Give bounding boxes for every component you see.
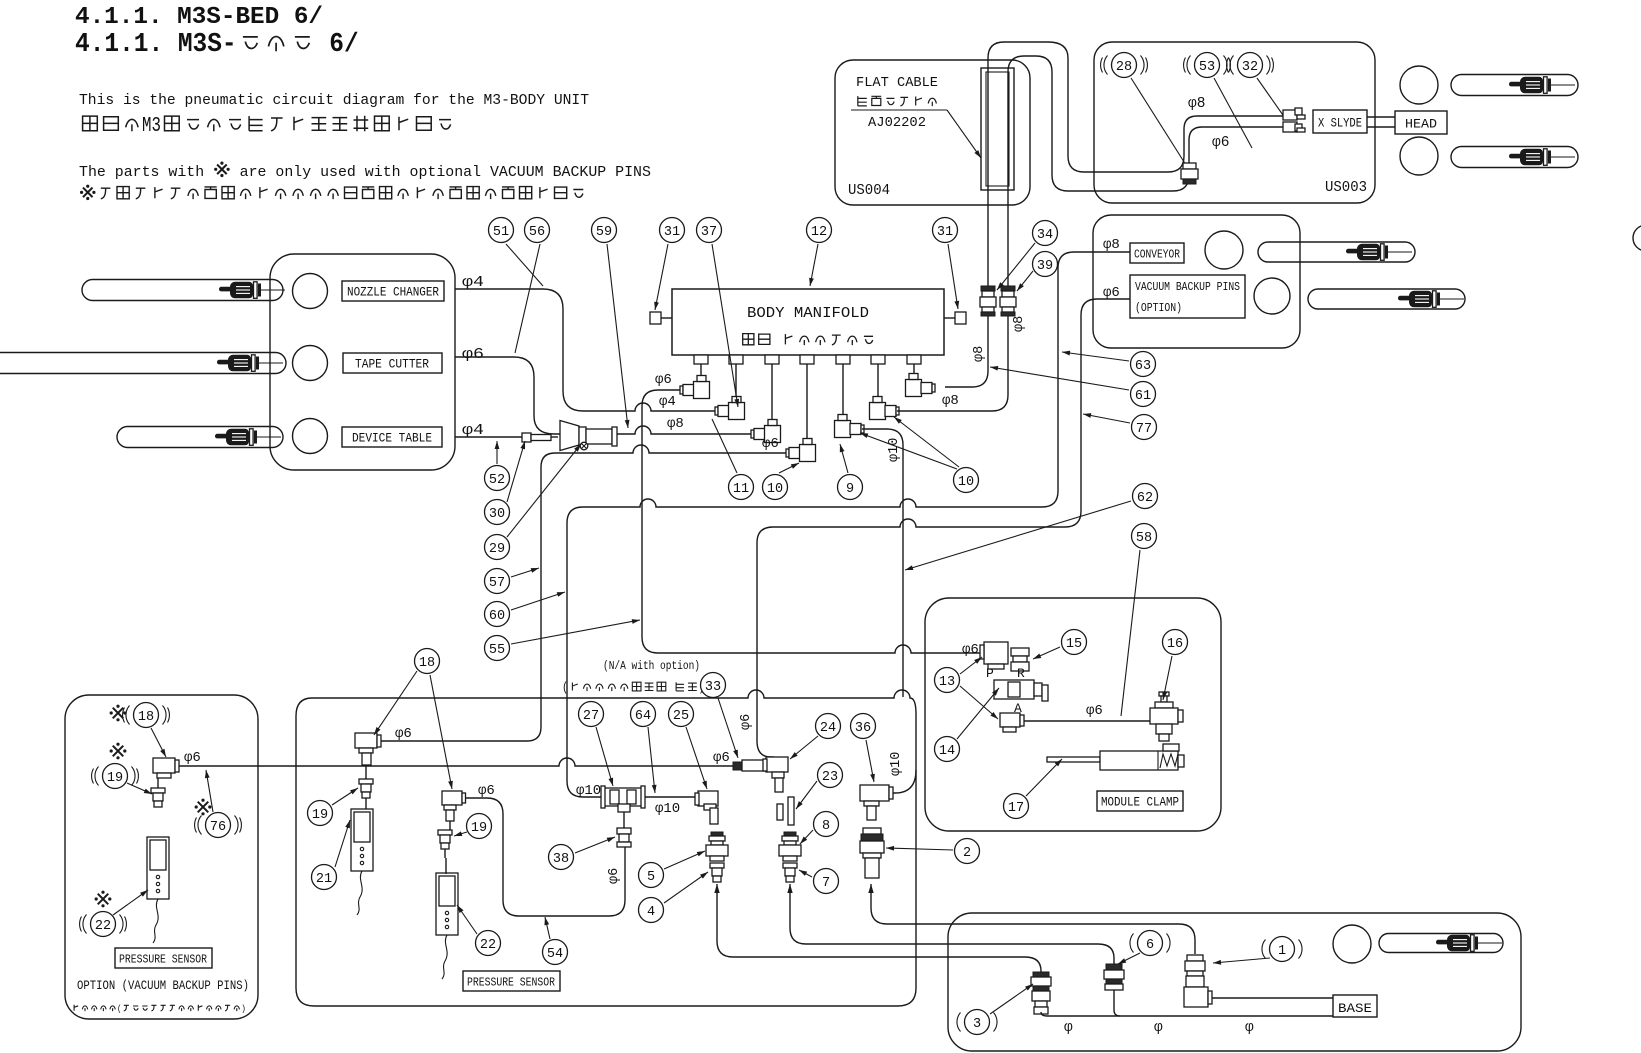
manifold port 4 stub	[800, 355, 814, 364]
circle right edge partial	[1633, 225, 1641, 251]
svg-text:φ6: φ6	[655, 372, 672, 388]
svg-text:57: 57	[489, 576, 505, 591]
manifold port 2 stub	[729, 355, 743, 364]
svg-text:φ4: φ4	[659, 394, 676, 410]
svg-text:4.1.1. M3S-BED 6/: 4.1.1. M3S-BED 6/	[75, 4, 323, 31]
svg-text:NOZZLE CHANGER: NOZZLE CHANGER	[347, 286, 439, 300]
svg-text:(: (	[562, 680, 568, 695]
callout 18 option	[134, 703, 159, 728]
svg-text:61: 61	[1135, 389, 1151, 404]
component clamp cylinder 17	[1047, 757, 1100, 762]
wire elbow18right down	[449, 821, 451, 830]
component pin 23	[788, 797, 794, 825]
callout 17	[1004, 794, 1029, 819]
svg-text:X SLYDE: X SLYDE	[1318, 117, 1362, 131]
valve hand-valve 29	[560, 421, 579, 451]
leader callout 28 to union	[1131, 78, 1186, 165]
fitting elbow 1	[1187, 955, 1203, 961]
svg-text:10: 10	[958, 475, 974, 490]
label option japanese	[74, 1005, 78, 1011]
svg-text:22: 22	[480, 938, 496, 953]
callout 10 a	[763, 475, 788, 500]
callout 60	[485, 602, 510, 627]
svg-text:18: 18	[138, 710, 154, 725]
wire option elbow down	[157, 778, 159, 788]
svg-text:59: 59	[596, 225, 612, 240]
enclosure BASE	[948, 913, 1521, 1051]
callout 51	[489, 218, 514, 243]
fitting inline union 28 on riser	[1183, 163, 1196, 169]
callout 18 shared	[415, 649, 440, 674]
wire flat cable outer run to US003 phi8	[988, 42, 1283, 288]
callout 1 base	[1270, 937, 1295, 962]
enclosure US004	[835, 60, 1030, 205]
fitting tee 27 (phi10)	[604, 788, 642, 806]
pointer pill nozzle-changer	[82, 280, 283, 301]
svg-text:53: 53	[1199, 60, 1215, 75]
callout 11	[729, 475, 754, 500]
svg-text:BODY MANIFOLD: BODY MANIFOLD	[747, 305, 869, 322]
svg-text:6/: 6/	[315, 29, 359, 59]
svg-text:13: 13	[939, 675, 955, 690]
pointer pill vacuum	[1308, 289, 1465, 309]
callout 59	[592, 218, 617, 243]
svg-text:77: 77	[1136, 422, 1152, 437]
svg-text:φ6: φ6	[184, 750, 201, 766]
wire elbow18b down and U-loop to fitting38 drop	[464, 798, 625, 916]
svg-text:14: 14	[939, 744, 955, 759]
callout 14	[935, 737, 960, 762]
svg-text:22: 22	[95, 919, 111, 934]
svg-text:US004: US004	[848, 182, 890, 199]
pointer pill head lower	[1451, 147, 1578, 168]
callout 28	[1112, 53, 1137, 78]
svg-text:21: 21	[316, 872, 332, 887]
callout 38	[549, 845, 574, 870]
svg-text:HEAD: HEAD	[1405, 117, 1437, 132]
fitting coupler 6	[1106, 964, 1122, 970]
svg-text:15: 15	[1066, 637, 1082, 652]
wire fitting19 to sensor21	[365, 798, 367, 809]
svg-text:7: 7	[822, 876, 830, 891]
fitting elbow 18 mid	[355, 733, 377, 748]
svg-text:R: R	[1017, 666, 1025, 681]
manifold port 1 stub	[694, 355, 708, 364]
label box CONVEYOR	[1130, 243, 1184, 263]
svg-text:34: 34	[1037, 228, 1053, 243]
pointer pill device-table	[117, 427, 283, 448]
wire conveyor to tee27 long run	[567, 252, 1130, 797]
svg-text:37: 37	[701, 225, 717, 240]
fitting elbow P port	[984, 642, 1008, 664]
callout 19 right	[467, 814, 492, 839]
svg-text:31: 31	[937, 225, 953, 240]
underline flat cable label	[851, 109, 947, 111]
callout 10 b	[954, 468, 979, 493]
label body manifold japanese	[743, 334, 754, 345]
callout 7	[814, 869, 839, 894]
manifold port 7 stub	[907, 355, 921, 364]
arrow up at fitting2	[868, 884, 873, 893]
fitting elbow port4 (phi6)	[786, 449, 789, 457]
reference mark near 76	[198, 802, 209, 813]
svg-text:4.1.1. M3S-: 4.1.1. M3S-	[75, 29, 237, 59]
svg-text:55: 55	[489, 643, 505, 658]
description line japanese	[83, 116, 98, 131]
callout 5	[639, 863, 664, 888]
callout 76	[206, 813, 231, 838]
label box VACUUM BACKUP PINS	[1130, 275, 1245, 318]
svg-text:BASE: BASE	[1338, 1001, 1372, 1016]
enclosure MODULE CLAMP	[925, 598, 1221, 831]
svg-text:38: 38	[553, 852, 569, 867]
svg-text:TAPE CUTTER: TAPE CUTTER	[355, 358, 429, 372]
svg-text:19: 19	[471, 821, 487, 836]
svg-text:φ6: φ6	[607, 868, 622, 884]
svg-text:28: 28	[1116, 60, 1132, 75]
wire port4 to pressure-sensor-21 elbow	[377, 445, 786, 741]
fitting silencer 15	[1011, 648, 1029, 656]
fitting elbow port5 (phi10)	[835, 421, 851, 438]
svg-text:): )	[241, 1003, 246, 1014]
label box NOZZLE CHANGER	[342, 281, 444, 301]
svg-text:9: 9	[846, 482, 854, 497]
svg-text:54: 54	[547, 947, 563, 962]
svg-text:φ8: φ8	[1188, 96, 1205, 112]
svg-text:φ: φ	[1245, 1020, 1254, 1036]
callout 24	[816, 714, 841, 739]
svg-text:US003: US003	[1325, 179, 1367, 196]
reference mark near 22	[98, 894, 109, 905]
fitting bulkhead 8	[784, 832, 796, 836]
svg-text:φ6: φ6	[462, 347, 484, 363]
svg-text:φ10: φ10	[889, 752, 904, 776]
svg-text:φ8: φ8	[942, 393, 959, 409]
wire option elbow to joint33	[179, 758, 733, 766]
callout 15	[1062, 630, 1087, 655]
callout 27	[579, 702, 604, 727]
fitting coupler 2	[863, 828, 881, 834]
svg-text:4: 4	[647, 905, 655, 920]
svg-text:58: 58	[1136, 531, 1152, 546]
svg-text:φ10: φ10	[655, 801, 680, 817]
svg-text:are only used with optional VA: are only used with optional VACUUM BACKU…	[231, 164, 651, 181]
svg-text:63: 63	[1135, 359, 1151, 374]
callout 52	[485, 466, 510, 491]
callout 33	[701, 673, 726, 698]
svg-text:17: 17	[1008, 801, 1024, 816]
callout 3 base	[965, 1010, 990, 1035]
fitting union 38	[617, 828, 631, 834]
svg-text:(N/A with option): (N/A with option)	[603, 659, 700, 673]
fitting coupler 39	[1001, 286, 1015, 291]
callout 58	[1132, 524, 1157, 549]
fitting elbow port2 (phi4)	[715, 407, 718, 415]
svg-text:3: 3	[973, 1017, 981, 1032]
svg-text:φ: φ	[1064, 1020, 1073, 1036]
component speed controller 16	[1159, 692, 1169, 696]
label box X SLYDE	[1313, 110, 1367, 133]
svg-text:18: 18	[419, 656, 435, 671]
port circle nozzle-changer	[293, 274, 328, 309]
enclosure conveyor-vacuum	[1093, 215, 1300, 348]
svg-text:φ8: φ8	[667, 416, 684, 432]
leader callout 32 to fitting	[1257, 78, 1285, 118]
svg-text:1: 1	[1278, 944, 1286, 959]
svg-text:φ6: φ6	[1212, 135, 1229, 151]
component pressure sensor option	[147, 837, 169, 899]
svg-text:29: 29	[489, 542, 505, 557]
label box HEAD	[1395, 111, 1447, 134]
label box PRESSURE SENSOR option	[115, 948, 212, 968]
svg-text:2: 2	[963, 846, 971, 861]
svg-text:62: 62	[1137, 491, 1153, 506]
manifold port 6 stub	[871, 355, 885, 364]
pointer pill conveyor	[1258, 242, 1415, 262]
svg-text:24: 24	[820, 721, 836, 736]
svg-text:φ6: φ6	[962, 642, 979, 658]
arrow up at fitting7	[787, 884, 792, 893]
svg-text:P: P	[986, 666, 994, 681]
callout 19 option	[103, 764, 128, 789]
callout 31 left	[660, 218, 685, 243]
svg-text:φ10: φ10	[887, 438, 902, 462]
circle head upper	[1400, 66, 1438, 104]
svg-text:8: 8	[822, 819, 830, 834]
callout 39	[1033, 252, 1058, 277]
svg-text:OPTION (VACUUM BACKUP PINS): OPTION (VACUUM BACKUP PINS)	[77, 978, 249, 993]
svg-text:φ8: φ8	[1103, 237, 1120, 253]
wire elbow18mid to fitting19	[365, 765, 367, 779]
svg-text:52: 52	[489, 473, 505, 488]
circle head lower	[1400, 137, 1438, 175]
leader callout 53 to wire	[1214, 78, 1252, 148]
svg-text:76: 76	[210, 820, 226, 835]
svg-text:M3: M3	[142, 114, 161, 138]
reference mark near 18	[113, 708, 124, 719]
wire flat cable upper run to US003 phi6	[1008, 56, 1283, 288]
fitting elbow port6 (phi8)	[870, 403, 886, 420]
fitting plug device line	[522, 433, 531, 442]
wire manifold port5 phi10 down to enclosure	[862, 429, 903, 697]
svg-text:φ8: φ8	[1012, 316, 1027, 332]
note line japanese	[83, 188, 93, 198]
svg-text:27: 27	[583, 709, 599, 724]
wire elbow1 to base label	[1212, 997, 1333, 999]
svg-text:60: 60	[489, 609, 505, 624]
enclosure OPTION vacuum backup pins	[65, 695, 258, 1019]
callout 29	[485, 535, 510, 560]
callout 36	[851, 714, 876, 739]
fitting nipple 19 option	[151, 788, 165, 793]
component BODY MANIFOLD	[672, 289, 944, 355]
flat cable component	[981, 68, 1014, 190]
wire fitting7 down to base fitting6	[790, 884, 1114, 964]
svg-text:φ10: φ10	[576, 783, 601, 799]
callout 53	[1195, 53, 1220, 78]
wire valve to port3	[617, 426, 751, 434]
enclosure bed internal components	[296, 690, 916, 1006]
svg-text:11: 11	[733, 482, 749, 497]
callout 8	[814, 812, 839, 837]
svg-text:64: 64	[635, 709, 651, 724]
port circle device-table	[293, 419, 328, 454]
fitting x-slyde upper	[1283, 110, 1297, 120]
svg-text:MODULE CLAMP: MODULE CLAMP	[1101, 795, 1179, 810]
arrow up at fitting4	[714, 884, 719, 893]
callout 37	[697, 218, 722, 243]
fitting nipple 7	[783, 863, 797, 868]
callout 22 option	[91, 912, 116, 937]
fitting elbow port1 (phi6)	[680, 386, 683, 394]
wire tee27 down to fitting38	[623, 812, 625, 828]
svg-text:36: 36	[855, 721, 871, 736]
svg-text:51: 51	[493, 225, 509, 240]
manifold right side port	[944, 317, 955, 319]
port circle tape-cutter	[293, 346, 328, 381]
svg-text:φ6: φ6	[1086, 703, 1103, 719]
fitting elbow 25	[698, 791, 718, 806]
label box DEVICE TABLE	[342, 427, 442, 447]
svg-text:φ: φ	[1154, 1020, 1163, 1036]
callout 30	[485, 500, 510, 525]
callout 61	[1131, 382, 1156, 407]
callout 12	[807, 218, 832, 243]
wire 19right to sensor	[444, 849, 446, 858]
svg-text:(OPTION): (OPTION)	[1135, 301, 1182, 315]
enclosure US003	[1094, 42, 1375, 203]
pointer pill tape-cutter	[0, 353, 286, 374]
manifold port 3 stub	[765, 355, 779, 364]
fitting elbow 24	[766, 757, 788, 772]
fitting elbow port3 (phi8)	[751, 430, 754, 438]
svg-text:30: 30	[489, 507, 505, 522]
svg-text:32: 32	[1242, 60, 1258, 75]
svg-text:AJ02202: AJ02202	[868, 116, 926, 131]
manifold left side port	[661, 317, 672, 319]
wire tee27 to elbow25	[642, 796, 700, 798]
fitting elbow 18 right	[442, 791, 462, 805]
label box TAPE CUTTER	[343, 353, 442, 373]
svg-text:6: 6	[1146, 938, 1154, 953]
component pressure sensor 21	[351, 809, 373, 871]
wire device-table to plug	[455, 436, 522, 438]
callout 32	[1238, 53, 1263, 78]
svg-text:56: 56	[529, 225, 545, 240]
fitting nipple 4	[710, 863, 724, 868]
svg-text:φ6: φ6	[478, 783, 495, 799]
svg-text:12: 12	[811, 225, 827, 240]
callout 62	[1133, 484, 1158, 509]
callout 55	[485, 636, 510, 661]
wire vacuum riser to elbow24 branch	[757, 299, 1130, 757]
component pressure sensor 22 right	[436, 873, 458, 935]
svg-text:DEVICE TABLE: DEVICE TABLE	[352, 432, 432, 446]
callout 54	[543, 940, 568, 965]
svg-text:φ6: φ6	[762, 436, 779, 452]
svg-text:19: 19	[107, 771, 123, 786]
wire branch to elbow36	[892, 770, 916, 793]
circle vacuum	[1254, 278, 1290, 314]
wire coupler3 to base label	[1041, 1012, 1333, 1016]
callout 22 right	[476, 931, 501, 956]
fitting x-slyde lower	[1283, 122, 1297, 132]
svg-text:33: 33	[705, 680, 721, 695]
svg-text:VACUUM BACKUP PINS: VACUUM BACKUP PINS	[1135, 280, 1240, 294]
svg-text:(: (	[117, 1003, 122, 1014]
svg-text:PRESSURE SENSOR: PRESSURE SENSOR	[119, 953, 207, 967]
fitting elbow 36 (phi10)	[860, 785, 889, 801]
fitting coupler 3	[1033, 972, 1049, 977]
wire coupler6 down join	[1114, 990, 1120, 1016]
circle base	[1333, 925, 1371, 963]
label flat cable japanese	[858, 96, 867, 106]
svg-text:FLAT CABLE: FLAT CABLE	[856, 76, 938, 91]
wire tape-cutter down to valve	[455, 357, 560, 434]
fitting bulkhead 5	[711, 832, 723, 836]
label box BASE	[1333, 995, 1377, 1017]
svg-text:φ6: φ6	[713, 750, 730, 766]
svg-text:The parts with: The parts with	[79, 164, 213, 181]
callout 2	[955, 839, 980, 864]
svg-text:5: 5	[647, 870, 655, 885]
pointer pill base	[1379, 934, 1503, 953]
wire coupler39 to port6	[897, 316, 1008, 411]
callout 9	[838, 475, 863, 500]
callout 77	[1132, 415, 1157, 440]
pointer pill head upper	[1451, 75, 1578, 96]
callout 6 base	[1138, 931, 1163, 956]
wire coupler34 to port7	[945, 316, 988, 387]
callout 16	[1163, 630, 1188, 655]
enclosure bed-left unit	[270, 254, 455, 470]
svg-text:PRESSURE SENSOR: PRESSURE SENSOR	[467, 976, 555, 990]
svg-text:23: 23	[822, 770, 838, 785]
wires X SLYDE to HEAD	[1367, 116, 1395, 118]
svg-text:φ6: φ6	[395, 726, 412, 742]
label box MODULE CLAMP	[1097, 791, 1183, 811]
circle conveyor	[1205, 231, 1243, 269]
wire fitting2 down to base elbow1	[871, 884, 1195, 954]
svg-text:10: 10	[767, 482, 783, 497]
callout 21	[312, 865, 337, 890]
wire fitting4 down to base fitting3	[717, 884, 1041, 973]
fitting elbow port7 (phi8)	[906, 380, 922, 397]
callout 4	[639, 898, 664, 923]
leader arrow flat cable	[947, 110, 981, 158]
fitting elbow 18 option	[153, 758, 175, 773]
callout 19 mid	[308, 801, 333, 826]
callout 56	[525, 218, 550, 243]
label box PRESSURE SENSOR right	[463, 971, 560, 991]
svg-text:19: 19	[312, 808, 328, 823]
reference mark near 19	[113, 746, 124, 757]
fitting quick-joint 33	[733, 762, 742, 770]
callout 25	[669, 702, 694, 727]
callout 34	[1033, 221, 1058, 246]
component PR valve 13	[994, 680, 1034, 699]
wire port1 to module clamp P	[642, 390, 984, 653]
callout 57	[485, 569, 510, 594]
svg-text:φ8: φ8	[972, 346, 987, 362]
fitting nipple 19 mid	[359, 779, 373, 784]
svg-text:φ6: φ6	[739, 714, 754, 730]
fitting elbow A port	[1000, 713, 1020, 727]
svg-text:CONVEYOR: CONVEYOR	[1134, 248, 1180, 262]
svg-text:16: 16	[1167, 637, 1183, 652]
callout 23	[818, 763, 843, 788]
callout 64	[631, 702, 656, 727]
